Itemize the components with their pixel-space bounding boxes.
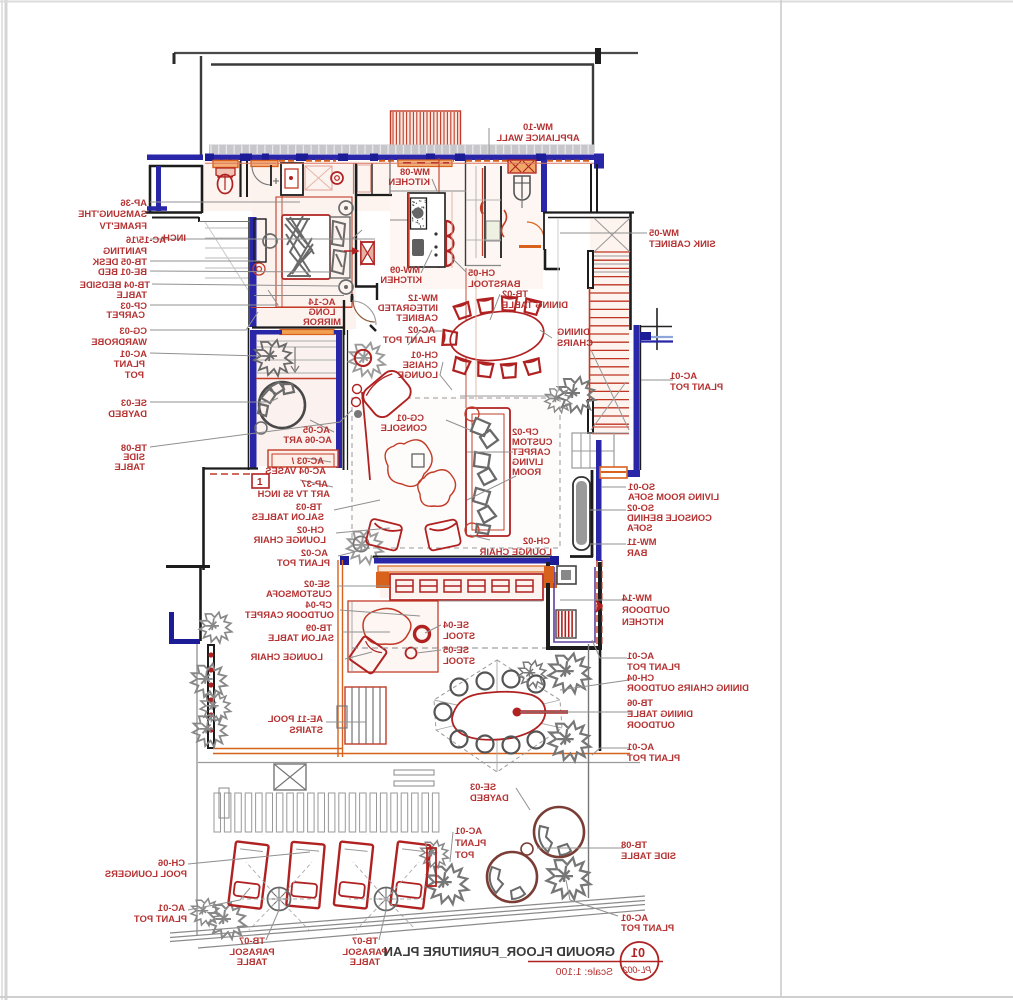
svg-text:ART TV 55 INCH: ART TV 55 INCH [257,488,330,499]
svg-text:LOUNGE CHAIR: LOUNGE CHAIR [253,534,326,545]
plant AC-02 upper [349,343,385,377]
lounge chairs CH-02 bottom [365,518,402,551]
svg-text:APPLIANCE WALL: APPLIANCE WALL [496,132,580,143]
orange sill right [600,467,627,478]
painting AC-15/16 rings [253,263,265,275]
svg-text:CUSTOMSOFA: CUSTOMSOFA [266,588,332,599]
plants around daybeds [426,865,468,905]
svg-text:TABLE: TABLE [116,289,147,300]
svg-text:AC-01: AC-01 [627,741,654,752]
svg-text:ROOM: ROOM [512,466,541,477]
svg-text:AP-36: AP-36 [120,197,147,208]
svg-text:PLANT: PLANT [113,358,145,369]
svg-text:DINING CHAIRS OUTDOOR: DINING CHAIRS OUTDOOR [627,682,749,693]
svg-text:PLANT: PLANT [455,837,487,848]
svg-text:CH-06: CH-06 [158,857,185,868]
stool SE-04 donut [415,627,430,642]
plants flanking outdoor dining [548,654,590,694]
svg-text:PLANT POT: PLANT POT [627,661,680,672]
red arrow bed to TV [344,249,358,254]
svg-text:TB-08: TB-08 [621,839,647,850]
leader lines gray [150,201,300,203]
svg-text:SOFA: SOFA [627,522,653,533]
svg-text:TB-06: TB-06 [627,697,653,708]
bedroom east wall [355,163,357,287]
top exterior navy wall [147,155,203,161]
bedroom red guide lines [281,196,283,308]
sink fixture U-shape [514,176,530,200]
daybed SE-03 bottom A [534,807,584,857]
red long verticals construction [465,268,467,408]
svg-text:TB-02: TB-02 [502,288,528,299]
grill striped [556,610,576,638]
desk TB-05 + chair [254,219,266,262]
svg-text:OUTDOOR: OUTDOOR [627,719,675,730]
svg-text:AC-06 ART: AC-06 ART [283,434,332,445]
svg-text:POOL LOUNGERS: POOL LOUNGERS [105,868,187,879]
salon lounge chair tilted [349,636,388,675]
red marker small [252,474,269,488]
outdoor dining chairs circles [451,679,468,696]
TV bowtie on wall AP-36 [361,242,374,264]
wardrobe wall top [254,295,344,297]
construction line right of dining [557,218,559,392]
kitchen tall cabinets [484,166,486,258]
svg-text:PLANT POT: PLANT POT [383,334,436,345]
svg-text:Scale: 1:100: Scale: 1:100 [555,967,613,978]
red planter bottom left [427,848,436,886]
svg-text:01: 01 [631,946,645,960]
svg-text:AC-01: AC-01 [455,825,482,836]
svg-text:PL-002: PL-002 [623,965,651,975]
svg-text:TB-07: TB-07 [239,935,265,946]
deck edge diagonal lines [170,896,645,948]
corridor walls [252,326,344,328]
dining chairs [453,301,473,320]
bedroom west navy wall [250,217,257,327]
svg-text:DAYBED: DAYBED [470,792,509,803]
svg-text:BAR: BAR [627,547,648,558]
closet X light [305,166,332,190]
svg-text:PLANT POT: PLANT POT [134,913,187,924]
stairwell outer wall [629,213,632,330]
navy wall mullion blocks [205,154,214,162]
daybed room shelf lines [257,341,336,373]
svg-text:WARDROBE: WARDROBE [91,336,147,347]
terrace wall outline [200,56,202,155]
kitchen counter lines [482,168,484,256]
bedroom north closet strip [356,194,392,196]
closet shelves left corridor [205,228,248,278]
svg-text:SINK CABINET: SINK CABINET [649,238,716,249]
svg-text:MW-14: MW-14 [621,592,652,603]
barstools CH-05 [446,221,454,236]
outdoor kitchen MW-14 walls [548,562,600,648]
daybed SE-03 circle [259,382,305,428]
svg-text:MW-05: MW-05 [649,227,679,238]
vases shelf AC-03/04 [268,450,338,467]
kitchen counter gray detail [475,166,477,258]
red swoosh line [362,392,370,480]
bathroom2 door arc [527,222,544,239]
deck crossed box [274,764,306,790]
top-right room walls [594,154,604,169]
svg-text:KITCHEN: KITCHEN [388,176,430,187]
svg-text:SIDE TABLE: SIDE TABLE [621,850,676,861]
T-wall bottom left [166,565,210,568]
outdoor salon carpet CP-04 [348,601,438,672]
wall insulation gray band [209,145,594,155]
svg-text:SE-03: SE-03 [470,781,496,792]
svg-text:PLANT POT: PLANT POT [277,557,330,568]
svg-text:GROUND FLOOR_FURNITURE PLAN: GROUND FLOOR_FURNITURE PLAN [383,944,615,959]
svg-text:ΙΝCH: ΙΝCH [163,232,186,243]
bedside tables TB-04 circles [339,201,353,215]
bar console MW-11 east [573,477,590,550]
plant AC-02 lower-left [347,530,383,564]
svg-text:TB-07: TB-07 [352,935,378,946]
svg-text:STOOL: STOOL [443,630,475,641]
svg-text:PLANT POT: PLANT POT [627,752,680,763]
parasol circles [268,888,291,911]
svg-text:AE-11 POOL: AE-11 POOL [268,713,323,724]
sofa cushions scribble [471,418,498,534]
svg-text:MW-10: MW-10 [523,121,553,132]
page border bottom [0,996,1013,998]
svg-text:1: 1 [257,477,263,488]
kitchen island MW-08 [408,193,445,267]
plant near stairs [557,377,595,413]
bedroom door arc [353,300,375,322]
mattress scribble [285,216,314,277]
console table CG-01 blobs / salon tables [385,440,432,487]
title text group [383,944,615,959]
svg-text:POT: POT [455,849,475,860]
chaise lounge CH-01 [359,367,415,421]
svg-text:CG-03: CG-03 [119,325,147,336]
pool stairs AE-11 [345,687,386,744]
svg-text:SE-04: SE-04 [442,619,469,630]
stair diagonals [591,218,630,430]
planter strip along pool west [208,645,214,748]
svg-text:STAIRS: STAIRS [289,724,323,735]
svg-text:TABLE: TABLE [350,956,381,967]
svg-text:LOUNGE CHAIR: LOUNGE CHAIR [250,651,323,662]
title circle [621,942,659,980]
WC2 ring [331,172,343,184]
svg-text:CARPET: CARPET [106,309,145,320]
svg-text:STOOL: STOOL [443,655,475,666]
page border left double line [1,0,3,1000]
sofa SO custom [466,408,510,536]
svg-text:DINING TABLE: DINING TABLE [627,708,693,719]
living room carpet dashed boundary [352,398,560,548]
svg-text:OUTDOOR CARPET: OUTDOOR CARPET [245,609,334,620]
window sill orange dashes [214,160,239,162]
svg-text:CH-05: CH-05 [468,267,495,278]
wall between kitchen and right room [541,160,547,212]
svg-text:FRAME'TV: FRAME'TV [99,220,147,231]
island sink dark blob [412,239,424,256]
svg-text:POT: POT [124,369,144,380]
room warm washes [203,161,390,211]
west planting row [199,612,231,643]
deck plank stripes [214,793,439,832]
gray cabinet below stairs [572,433,614,468]
svg-text:SE-03: SE-03 [121,397,147,408]
daybed SE-03 bottom B [487,852,537,902]
svg-text:CH-02: CH-02 [523,535,550,546]
svg-text:AC-15/16: AC-15/16 [126,234,166,245]
appliance wall MW-10 hatched block [391,111,461,147]
svg-text:KITCHEN: KITCHEN [380,274,422,285]
daybed room navy walls [250,330,257,468]
navy connector at stair base [627,470,640,477]
orange box left of kitchen [544,566,554,583]
svg-text:SALON TABLE: SALON TABLE [268,632,334,643]
svg-text:AC-04 VASES: AC-04 VASES [265,465,326,476]
roof edge line top [174,52,638,54]
staircase treads [590,252,629,424]
dashed level line [352,647,560,649]
pool loungers CH-06 [228,841,269,909]
orange threshold strip [378,566,548,572]
svg-text:OUTDOOR: OUTDOOR [622,604,670,615]
bathroom2 door arc [252,166,271,185]
south navy wall of living room [374,558,551,564]
bathroom dividing wall double [239,161,241,197]
svg-text:CHAIRS: CHAIRS [557,337,593,348]
svg-text:AC-01: AC-01 [670,370,697,381]
plant pot AC-01 scribble [254,340,292,376]
salon blob table TB-09 [363,608,411,644]
svg-text:CABINET: CABINET [396,312,438,323]
svg-text:LIVING ROOM SOFA: LIVING ROOM SOFA [628,491,719,502]
wall below outdoor kitchen [599,644,602,751]
parasol dashed octagon [434,660,562,772]
svg-text:DAYBED: DAYBED [108,408,147,419]
svg-text:SE-05: SE-05 [443,644,469,655]
title underline [528,961,663,963]
svg-text:BE-01 BED: BE-01 BED [98,266,147,277]
toilet WC [218,175,233,194]
outdoor custom sofa SE-02 [390,574,543,600]
mirrored label layer [78,121,749,967]
svg-text:PAINTING: PAINTING [103,245,147,256]
shower cubicle [281,163,303,195]
island hob speckled [411,198,427,229]
bedroom carpet outline CP-03 [276,197,352,307]
terrace west wall [202,467,205,570]
svg-text:TABLE: TABLE [237,956,268,967]
construction verticals living room [475,270,477,400]
svg-text:DINING TABLE: DINING TABLE [502,299,568,310]
svg-text:MW-11: MW-11 [627,536,657,547]
bed BE-01 [282,215,330,279]
navy L-wall lower left [172,639,200,644]
svg-text:PLANT POT: PLANT POT [670,381,723,392]
stool SE-05 [406,648,417,659]
sheet divider vertical line [780,0,782,997]
svg-text:AC-01: AC-01 [158,902,185,913]
svg-text:SALON TABLES: SALON TABLES [252,511,324,522]
svg-text:MIRROR: MIRROR [303,316,341,327]
svg-text:DINING: DINING [557,326,590,337]
left TV niche walls [149,165,203,168]
water connection cross [656,308,658,350]
svg-text:PLANT POT: PLANT POT [621,922,674,933]
red dashed path + arrow [596,560,598,646]
svg-text:LOUNGE: LOUNGE [398,369,438,380]
pool edge orange lines [337,560,339,757]
bathroom window sill fixtures [213,161,238,168]
outdoor kitchen cabinet C [557,566,576,584]
page border top [0,1,1013,3]
pillows headboard [330,217,350,278]
inner red face line of top wall [205,162,594,164]
svg-text:LOUNGE CHAIR: LOUNGE CHAIR [479,546,552,557]
stair side rails [588,251,593,288]
svg-text:CONSOLE: CONSOLE [381,422,427,433]
svg-text:SAMSUNG'THE: SAMSUNG'THE [78,208,147,219]
outdoor dining table TB-06 teardrop [452,692,545,740]
svg-text:KITCHEN: KITCHEN [622,616,664,627]
svg-text:TABLE: TABLE [114,461,145,472]
red guide vertical kitchen/island [451,192,453,268]
dining table TB-02 oval [447,306,546,365]
svg-text:AC-01: AC-01 [627,650,654,661]
deck horizontal slats right [394,770,434,775]
